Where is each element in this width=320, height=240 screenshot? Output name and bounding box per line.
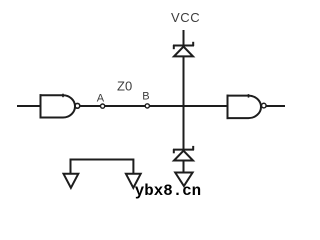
svg-text:A: A: [97, 93, 105, 105]
wire: bottom-left bracket: [71, 160, 134, 174]
wire: left input to gate U1: [17, 105, 40, 107]
nand gate U2 (right): [227, 94, 267, 119]
wire: vertical rail from D2 to port arrow: [183, 161, 185, 173]
svg-text:Z0: Z0: [117, 79, 132, 94]
svg-text:VCC: VCC: [171, 10, 200, 25]
zener diode D2 (to ground arrow): [173, 146, 194, 161]
node B: [145, 104, 149, 108]
nand gate U1 (left): [40, 94, 80, 119]
wire: main horizontal net Z0 from U1 output to U2 input: [80, 105, 227, 107]
port arrow (bracket right): [126, 174, 141, 188]
port arrow (bracket left): [64, 174, 79, 188]
svg-text:B: B: [142, 91, 149, 103]
port arrow (below D2): [175, 173, 192, 187]
zener diode D1 (to VCC): [173, 42, 194, 57]
wire: vertical rail from VCC down to diode D1: [183, 30, 185, 46]
node A: [101, 104, 105, 108]
svg-text:ybx8.cn: ybx8.cn: [135, 182, 201, 200]
wire: U2 output: [267, 105, 286, 107]
wire: vertical rail from D1 through net Z0 down to diode D2: [183, 56, 185, 149]
